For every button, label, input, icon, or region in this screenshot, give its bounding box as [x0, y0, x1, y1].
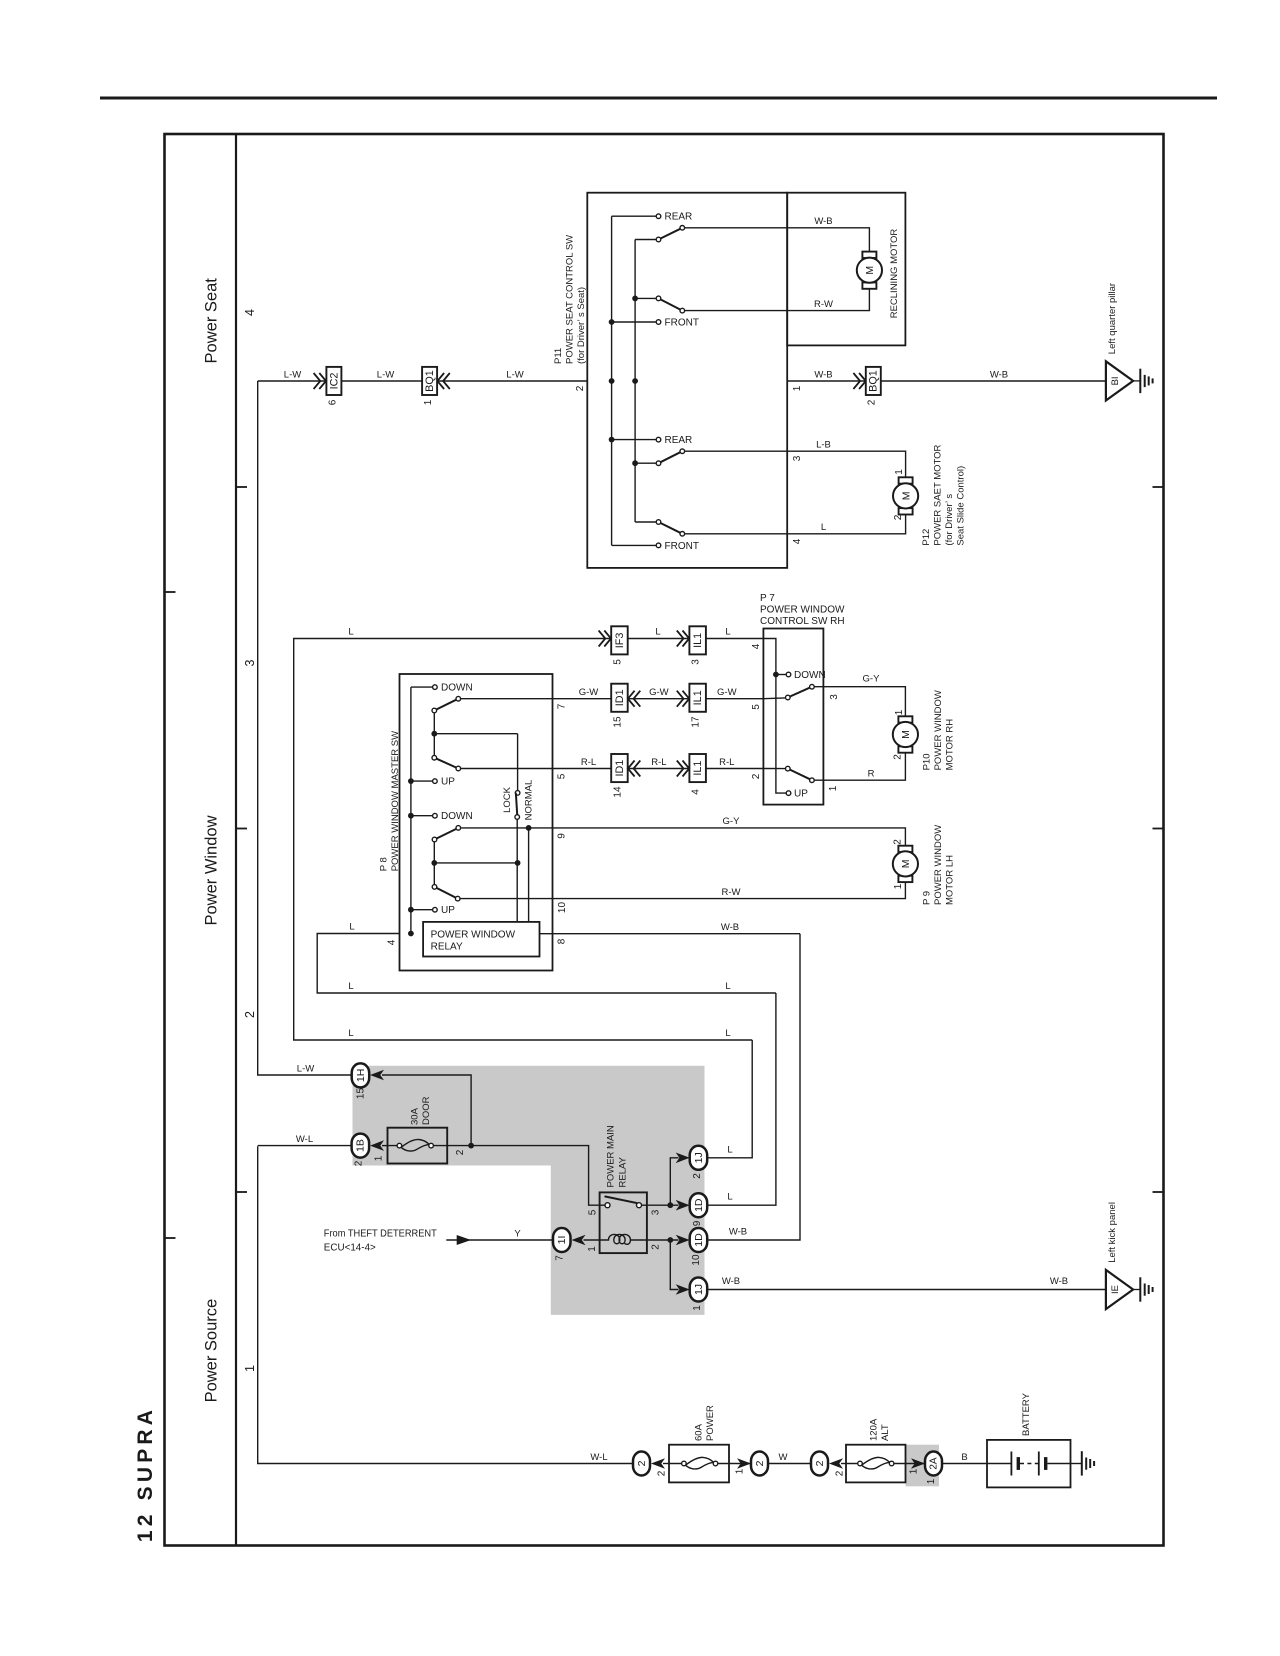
svg-text:1D: 1D — [693, 1233, 705, 1247]
junction dot P8 lower center — [431, 860, 437, 866]
svg-text:W-L: W-L — [296, 1134, 313, 1145]
svg-text:R-L: R-L — [719, 757, 734, 768]
connector box BQ1 — [422, 367, 437, 395]
svg-text:5: 5 — [751, 704, 762, 710]
wire G-W P8 pin7 to P7 pin5 — [553, 698, 764, 700]
svg-text:4: 4 — [751, 643, 762, 649]
svg-text:1: 1 — [893, 883, 904, 889]
svg-text:9: 9 — [692, 1220, 703, 1226]
svg-text:2: 2 — [814, 1460, 826, 1466]
wire center to lock line — [434, 733, 517, 735]
switch blade slide front — [659, 522, 683, 534]
svg-text:NORMAL: NORMAL — [524, 780, 535, 821]
svg-text:L: L — [727, 1144, 732, 1155]
chevron out of ID1 upper — [628, 691, 640, 707]
svg-text:L: L — [349, 922, 354, 933]
P8 bus line — [410, 687, 412, 933]
lock switch blade — [516, 794, 517, 815]
svg-text:1: 1 — [792, 385, 803, 391]
connector oval 1H — [352, 1063, 370, 1087]
connector box BQ1 seat — [866, 367, 881, 395]
wire W segment — [768, 1463, 811, 1465]
arrowhead into oval 2 — [651, 1458, 665, 1469]
svg-text:4: 4 — [387, 939, 398, 945]
svg-text:4: 4 — [691, 789, 702, 795]
wire battery to ground — [1071, 1463, 1082, 1465]
svg-text:REAR: REAR — [665, 435, 693, 446]
svg-text:1: 1 — [926, 1478, 937, 1484]
connector oval 1D pin9 — [690, 1193, 708, 1217]
svg-text:ID1: ID1 — [614, 689, 626, 706]
fuse 60A POWER box — [669, 1445, 729, 1483]
connector oval 1J pin1 — [690, 1278, 708, 1302]
svg-text:1B: 1B — [355, 1139, 367, 1152]
svg-text:17: 17 — [691, 716, 702, 728]
svg-text:From THEFT DETERRENT: From THEFT DETERRENT — [324, 1229, 437, 1240]
svg-text:G-Y: G-Y — [723, 816, 741, 827]
wire W-L bracket from 1B feed down to fuse row — [258, 1146, 633, 1463]
svg-text:2: 2 — [892, 754, 903, 760]
svg-text:2: 2 — [651, 1244, 662, 1250]
contact DOWN P7 — [776, 674, 786, 676]
svg-text:POWER: POWER — [705, 1405, 716, 1441]
tick col 2/1 right frame — [1153, 1191, 1164, 1193]
wire W-B from 1D pin10 up to P8 pin 8 — [707, 934, 800, 1240]
svg-text:L: L — [348, 1028, 353, 1039]
wire R P7 pin1 to motor RH — [815, 753, 906, 781]
gray highlight patch — [353, 1066, 705, 1315]
chevron into IL1 top — [677, 631, 689, 647]
svg-text:2: 2 — [835, 1470, 846, 1476]
chevron into IF3 — [599, 631, 611, 647]
connector box ID1 upper — [611, 684, 628, 712]
svg-text:B: B — [961, 1452, 967, 1463]
svg-text:R-L: R-L — [581, 757, 596, 768]
svg-text:Left quarter pillar: Left quarter pillar — [1107, 283, 1118, 354]
wire fuse to oval — [729, 1463, 751, 1465]
svg-text:R-L: R-L — [651, 757, 666, 768]
svg-text:W-B: W-B — [721, 922, 739, 933]
wire P8 pin 10 R-W to motor LH — [460, 878, 905, 899]
wire R-L P8 pin5 to P7 pin2 — [553, 768, 764, 770]
svg-text:LOCK: LOCK — [502, 786, 513, 813]
svg-text:Power Seat: Power Seat — [203, 278, 221, 364]
svg-text:POWER WINDOW: POWER WINDOW — [933, 690, 944, 770]
svg-text:W-B: W-B — [1050, 1276, 1068, 1287]
connector oval 1I — [553, 1228, 571, 1252]
wire L pin4 feed (1D pin9 to P8 pin4) — [317, 934, 776, 994]
svg-text:POWER WINDOW: POWER WINDOW — [760, 604, 845, 615]
switch blade recline rear — [659, 228, 683, 240]
POWER MAIN RELAY box — [600, 1192, 647, 1253]
svg-text:12 SUPRA: 12 SUPRA — [134, 1406, 157, 1542]
junction dot lock line lower center — [515, 860, 521, 866]
relay coil — [600, 1234, 647, 1244]
svg-text:1: 1 — [909, 1468, 920, 1474]
svg-text:DOOR: DOOR — [421, 1096, 432, 1125]
svg-text:IL1: IL1 — [692, 761, 704, 776]
wire relay pin 8 W-B — [540, 933, 801, 935]
switch blade P8 window LH up — [435, 887, 458, 899]
P11 vertical bus 1 — [611, 216, 613, 545]
svg-text:IL1: IL1 — [692, 633, 704, 648]
svg-text:1: 1 — [243, 1365, 257, 1372]
svg-text:UP: UP — [794, 789, 808, 800]
top horizontal rule — [100, 97, 1217, 100]
reclining motor compartment box — [787, 193, 905, 346]
junction dot P8 upper center — [431, 731, 437, 737]
wire arrow to fuse — [663, 1463, 669, 1465]
svg-text:Left kick panel: Left kick panel — [1107, 1202, 1118, 1263]
chevron into IL1 mid — [677, 691, 689, 707]
svg-text:M: M — [864, 266, 876, 275]
svg-text:L: L — [727, 1192, 732, 1203]
svg-text:POWER WINDOW: POWER WINDOW — [431, 929, 516, 940]
svg-text:2: 2 — [893, 514, 904, 520]
motor P10 POWER WINDOW MOTOR RH — [893, 716, 918, 752]
wire L from 1J pin2 up — [707, 1040, 752, 1158]
P11 box POWER SEAT CONTROL SW — [587, 193, 787, 568]
P7 box POWER WINDOW CONTROL SW RH — [763, 629, 823, 805]
chevron into IC2 — [314, 373, 326, 389]
chevron out of ID1 lower — [628, 761, 640, 777]
connector box IL1 top — [689, 626, 706, 654]
svg-text:FRONT: FRONT — [665, 318, 699, 329]
connector box IL1 mid — [689, 684, 706, 712]
svg-text:L-W: L-W — [506, 369, 523, 380]
svg-text:10: 10 — [691, 1254, 702, 1266]
svg-text:L-W: L-W — [377, 369, 394, 380]
svg-text:2: 2 — [892, 839, 903, 845]
junction dot bus UP1 — [408, 778, 414, 784]
wire from theft arrow to 1I — [446, 1239, 553, 1241]
svg-text:L: L — [348, 627, 353, 638]
lock switch line upper — [517, 734, 519, 791]
junction dot bus DOWN2 — [408, 813, 414, 819]
svg-text:7: 7 — [555, 1255, 566, 1261]
tick col 3/2 right frame — [1153, 828, 1164, 830]
svg-text:MOTOR RH: MOTOR RH — [945, 719, 956, 771]
fuse 60A element — [669, 1463, 729, 1465]
svg-text:POWER SEAT CONTROL SW: POWER SEAT CONTROL SW — [565, 235, 576, 364]
svg-text:M: M — [900, 860, 912, 869]
wire from 1H arrow to junction on W-L feed — [382, 1075, 471, 1146]
switch blade P8 window RH down — [434, 699, 458, 711]
POWER WINDOW RELAY box — [423, 922, 539, 957]
svg-text:6: 6 — [328, 399, 339, 405]
lock line lower to relay — [516, 820, 518, 922]
svg-text:2: 2 — [354, 1160, 365, 1166]
svg-text:5: 5 — [557, 773, 568, 779]
svg-text:2: 2 — [455, 1149, 466, 1155]
fuse 120A element — [846, 1463, 906, 1465]
arrowhead into oval 2 (120A side) — [829, 1458, 843, 1469]
wire L main feed loop (1J pin2 to IF3/P7) — [294, 639, 764, 1041]
junction dot pin2 bus — [667, 1237, 673, 1243]
svg-text:2: 2 — [751, 773, 762, 779]
svg-text:POWER WINDOW MASTER SW: POWER WINDOW MASTER SW — [390, 731, 401, 871]
tick seat/window outer — [165, 591, 176, 593]
outer frame box — [165, 134, 1164, 1546]
arrowhead into 1D pin10 — [676, 1235, 690, 1246]
svg-text:1: 1 — [692, 1305, 703, 1311]
svg-text:1D: 1D — [693, 1198, 705, 1212]
wire P7 pin5 into blade — [763, 697, 785, 700]
svg-text:2: 2 — [867, 399, 878, 405]
tick col 3/2 inner — [236, 828, 247, 830]
wire G-Y P7 pin3 to motor RH — [815, 687, 906, 717]
svg-text:2A: 2A — [929, 1457, 940, 1470]
svg-text:1I: 1I — [556, 1236, 568, 1245]
contact DOWN upper P8 — [411, 686, 432, 688]
svg-text:5: 5 — [613, 659, 624, 665]
ground symbol BI — [1133, 369, 1153, 393]
contact FRONT recline — [612, 321, 656, 323]
svg-text:4: 4 — [243, 309, 257, 316]
ground triangle IE — [1106, 1270, 1133, 1309]
wire lower center to lock line — [434, 862, 517, 864]
svg-text:P 9: P 9 — [922, 891, 933, 905]
svg-text:G-W: G-W — [717, 687, 737, 698]
arrowhead into 1J pin2 — [676, 1153, 690, 1164]
svg-text:RELAY: RELAY — [431, 941, 463, 952]
contact REAR recline — [612, 215, 656, 217]
contact UP upper P8 — [411, 780, 432, 782]
svg-text:G-W: G-W — [649, 687, 669, 698]
svg-text:FRONT: FRONT — [665, 541, 699, 552]
fuse 30A DOOR box — [388, 1128, 448, 1164]
svg-text:BI: BI — [1110, 376, 1121, 385]
connector oval 2 (left of 60A fuse) — [633, 1452, 650, 1476]
svg-text:1H: 1H — [355, 1069, 367, 1082]
svg-text:30A: 30A — [410, 1107, 421, 1125]
svg-text:ALT: ALT — [880, 1424, 891, 1441]
battery cells — [987, 1463, 1011, 1465]
arrowhead into 1J pin1 — [676, 1284, 690, 1295]
svg-text:(for Driver’ s Seat): (for Driver’ s Seat) — [576, 287, 587, 364]
ground symbol IE — [1133, 1277, 1153, 1301]
inner left column line — [235, 134, 237, 1546]
P11 vertical bus 2 — [634, 240, 636, 523]
wire relay pin 3 to bus — [647, 1204, 679, 1206]
svg-text:R: R — [868, 769, 875, 780]
svg-text:14: 14 — [613, 786, 624, 798]
svg-text:4: 4 — [792, 538, 803, 544]
wire W-L from left to 1B — [258, 1145, 352, 1147]
svg-text:1: 1 — [735, 1468, 746, 1474]
lock switch contacts — [515, 791, 520, 796]
svg-text:L-B: L-B — [816, 440, 831, 451]
svg-text:P11: P11 — [553, 348, 564, 364]
arrowhead into 1I — [572, 1235, 586, 1246]
normal line junction dot on pin9 wire — [526, 825, 532, 831]
wire 30A fuse to relay pin 5 — [447, 1146, 599, 1206]
svg-text:P12: P12 — [921, 529, 932, 546]
svg-text:UP: UP — [441, 905, 455, 916]
svg-text:120A: 120A — [869, 1418, 880, 1441]
normal line to relay — [528, 828, 530, 922]
svg-text:P 8: P 8 — [379, 857, 390, 871]
svg-text:L: L — [725, 1028, 730, 1039]
junction dots on P11 buses — [609, 319, 615, 325]
svg-text:RELAY: RELAY — [618, 1156, 629, 1187]
svg-text:Power Window: Power Window — [203, 815, 221, 925]
connector oval 1J pin2 — [690, 1146, 708, 1170]
svg-text:UP: UP — [441, 777, 455, 788]
wire relay pin 2 to bus — [647, 1239, 679, 1241]
svg-text:G-Y: G-Y — [863, 674, 881, 685]
wire arrow to 30A fuse — [382, 1145, 388, 1147]
wire L from 1D pin9 up — [707, 993, 776, 1205]
switch blade P7 down — [788, 687, 812, 698]
svg-text:IL1: IL1 — [692, 690, 704, 705]
svg-text:3: 3 — [792, 455, 803, 461]
wire L-W main bus — [258, 380, 1106, 382]
svg-text:1: 1 — [894, 469, 905, 475]
wire fuse to 2A oval — [906, 1463, 926, 1465]
wire blade to bus2 slide — [635, 462, 656, 464]
svg-text:BQ1: BQ1 — [868, 370, 880, 392]
fuse 120A ALT box — [846, 1445, 906, 1483]
svg-text:L-W: L-W — [297, 1064, 314, 1075]
svg-text:W-B: W-B — [814, 216, 832, 227]
svg-text:POWER SAET MOTOR: POWER SAET MOTOR — [933, 444, 944, 545]
wire L-B to slide motor — [685, 451, 906, 477]
svg-text:8: 8 — [557, 938, 568, 944]
svg-text:10: 10 — [557, 902, 568, 914]
motor P9 POWER WINDOW MOTOR LH — [893, 846, 918, 882]
tick window/source outer — [165, 1237, 176, 1239]
svg-text:P10: P10 — [922, 753, 933, 770]
svg-text:M: M — [900, 492, 912, 501]
svg-text:5: 5 — [588, 1209, 599, 1215]
svg-text:DOWN: DOWN — [794, 670, 826, 681]
svg-text:BQ1: BQ1 — [424, 370, 436, 392]
switch blade P8 window LH down — [435, 828, 459, 840]
svg-text:1: 1 — [423, 399, 434, 405]
tick col 4/3 right frame — [1153, 486, 1164, 488]
junction dot 1H/W-L — [468, 1143, 474, 1149]
connector box ID1 lower — [611, 754, 628, 782]
chevron out of BQ1 — [437, 373, 449, 389]
svg-text:Y: Y — [514, 1229, 521, 1240]
junction dot pin3 bus — [667, 1202, 673, 1208]
svg-text:3: 3 — [651, 1209, 662, 1215]
connector box IL1 bottom — [689, 754, 706, 782]
svg-text:15: 15 — [613, 716, 624, 728]
connector oval 2 (left of 120A fuse) — [811, 1452, 828, 1476]
contact DOWN lower P8 — [411, 815, 432, 817]
svg-text:M: M — [900, 730, 912, 739]
tick col 4/3 inner — [236, 486, 247, 488]
switch blade P7 up — [788, 769, 812, 781]
ground symbol at battery — [1082, 1451, 1094, 1475]
wire L-W feed from power seat column down to 1H — [258, 381, 352, 1075]
svg-text:RECLINING MOTOR: RECLINING MOTOR — [889, 229, 900, 319]
bus vertical down to 1J pin1 — [670, 1240, 678, 1290]
chevron into BQ1 row2 — [853, 373, 865, 389]
P7 pin4 wire to contacts — [763, 639, 786, 794]
svg-text:1: 1 — [587, 1246, 598, 1252]
wire blade to bus2 — [635, 239, 656, 241]
battery box — [987, 1440, 1071, 1488]
connector oval 1D pin10 — [690, 1228, 708, 1252]
svg-text:ECU<14-4>: ECU<14-4> — [324, 1243, 376, 1254]
switch blade P8 window RH up — [434, 758, 458, 769]
svg-text:L: L — [725, 627, 730, 638]
svg-text:REAR: REAR — [665, 212, 693, 223]
arrowhead into 1H — [370, 1070, 384, 1081]
svg-text:R-W: R-W — [814, 299, 833, 310]
motor P12 POWER SAET MOTOR — [893, 477, 918, 514]
svg-text:W-B: W-B — [722, 1276, 740, 1287]
connector oval 1B — [352, 1134, 370, 1158]
svg-text:L-W: L-W — [284, 369, 301, 380]
wire L to slide motor — [685, 515, 906, 534]
svg-text:ID1: ID1 — [614, 760, 626, 777]
wire P7 pin2 into blade — [763, 768, 785, 770]
wire P8 pin 5 — [461, 768, 553, 770]
svg-text:L: L — [348, 981, 353, 992]
svg-text:W-B: W-B — [990, 369, 1008, 380]
svg-text:L: L — [725, 981, 730, 992]
connector oval 2A — [925, 1452, 942, 1476]
svg-text:9: 9 — [557, 833, 568, 839]
connector box IF3 — [611, 626, 628, 654]
arrowhead into 1D pin9 — [676, 1200, 690, 1211]
fuse 30A element — [388, 1145, 448, 1147]
connector box IC2 — [326, 367, 341, 395]
svg-text:60A: 60A — [694, 1423, 705, 1441]
svg-text:1: 1 — [828, 785, 839, 791]
arrowhead theft deterrent — [457, 1235, 471, 1245]
svg-text:R-W: R-W — [722, 887, 741, 898]
wire B segment — [942, 1463, 987, 1465]
junction dot bus pin4 — [408, 931, 414, 937]
svg-text:POWER MAIN: POWER MAIN — [606, 1125, 617, 1187]
wire W-B from 1J pin1 to IE ground — [707, 1289, 1106, 1291]
connector oval 2 (right of 60A fuse) — [751, 1452, 768, 1476]
svg-text:IE: IE — [1110, 1285, 1121, 1294]
svg-text:BATTERY: BATTERY — [1021, 1392, 1032, 1436]
wire arrow to relay pin 1 — [584, 1239, 600, 1241]
junction dot bus UP2 — [408, 907, 414, 913]
svg-text:POWER WINDOW: POWER WINDOW — [933, 825, 944, 905]
junction dot P7 down branch — [773, 672, 779, 678]
svg-text:15: 15 — [356, 1088, 367, 1100]
svg-text:2: 2 — [636, 1460, 648, 1466]
svg-text:G-W: G-W — [579, 687, 599, 698]
svg-text:L: L — [655, 627, 660, 638]
arrowhead into 1B — [370, 1140, 384, 1151]
wire arrow to 120A fuse — [841, 1463, 846, 1465]
arrowhead out of 60A fuse — [737, 1458, 751, 1469]
relay contact — [600, 1204, 605, 1206]
svg-text:DOWN: DOWN — [441, 811, 473, 822]
P8 box POWER WINDOW MASTER SW — [400, 674, 553, 971]
svg-text:1: 1 — [894, 709, 905, 715]
svg-text:3: 3 — [243, 659, 257, 666]
contact UP lower P8 — [411, 909, 432, 911]
svg-text:(for Driver’ s: (for Driver’ s — [944, 494, 955, 546]
svg-text:2: 2 — [243, 1011, 257, 1018]
svg-text:W-L: W-L — [590, 1452, 607, 1463]
bus vertical up to 1J pin2 — [670, 1158, 678, 1205]
svg-text:W: W — [779, 1452, 788, 1463]
wire center to second blade recline — [635, 297, 656, 299]
svg-text:Power Source: Power Source — [203, 1299, 221, 1403]
svg-text:MOTOR LH: MOTOR LH — [945, 855, 956, 905]
